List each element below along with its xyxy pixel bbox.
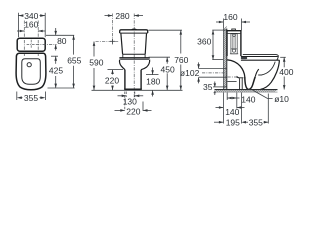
bowl rim top: [119, 57, 149, 59]
centerline extensions for 160 (dash-dot): [24, 21, 38, 57]
dimension 280: [105, 15, 144, 17]
tank center mark: [27, 40, 36, 49]
bowl plan inner rim: [22, 59, 41, 85]
dimension 425 extension: [51, 55, 58, 57]
flush inlet hole: [27, 63, 31, 67]
dimension 130 (bottom): [126, 92, 135, 98]
svg-text:80: 80: [57, 36, 67, 46]
seat level extension line: [149, 56, 171, 58]
supply point tick: [111, 39, 113, 44]
svg-text:180: 180: [146, 77, 160, 87]
bowl left side curve: [119, 60, 124, 70]
bowl rim line: [241, 59, 280, 61]
dimension 340 line: [18, 13, 45, 37]
seat front lip: [277, 56, 279, 60]
bottom extension lines: [223, 93, 268, 124]
dimension ø102: [198, 62, 200, 83]
svg-text:655: 655: [67, 55, 81, 65]
supply point horizontal centerline: [96, 40, 119, 42]
rear reference line: [46, 34, 74, 36]
wall fill: [223, 29, 226, 90]
bowl plan outer outline: [16, 53, 46, 90]
dimension 760: [180, 30, 182, 90]
dimension 360: [212, 29, 227, 31]
dimension 355 (right): [243, 121, 268, 123]
bowl right side curve: [141, 60, 150, 70]
tank lid: [120, 30, 148, 33]
dimension 590: [93, 42, 95, 91]
lid top extension line: [149, 29, 183, 31]
flush mechanism: [230, 34, 238, 54]
bowl rim lower line: [120, 58, 149, 60]
tank lid seam: [227, 32, 241, 34]
tank centerline to right (dash-dot): [36, 43, 57, 45]
dimension 655: [73, 35, 75, 88]
svg-text:760: 760: [174, 55, 188, 65]
dimension 160 arrows: [20, 30, 43, 33]
outlet centerline dash-dot: [202, 72, 227, 74]
floor hatching: [215, 90, 277, 92]
dimension 160 (top): [216, 19, 250, 31]
vertical outlet pipe: [238, 78, 244, 90]
pedestal bottom: [124, 88, 142, 90]
tank side outline: [227, 31, 241, 56]
pedestal: [125, 70, 141, 90]
wall lines: [222, 29, 224, 90]
supply centerline vertical (dash-dot): [111, 14, 113, 45]
svg-text:425: 425: [49, 65, 63, 75]
tank centerline (dash-dot): [133, 14, 135, 100]
dimension 355: [17, 92, 46, 101]
svg-text:140: 140: [241, 94, 255, 104]
tank bottom line: [123, 53, 146, 55]
dimension 220 (bottom): [124, 92, 126, 110]
svg-text:140: 140: [225, 107, 239, 117]
lid bottom line: [120, 32, 148, 34]
svg-text:280: 280: [115, 11, 129, 21]
rear foot line: [227, 80, 236, 82]
tank plan outline: [17, 38, 45, 51]
floor line: [215, 89, 278, 91]
svg-text:360: 360: [197, 36, 211, 46]
dimension 160 line: [17, 30, 46, 32]
outlet pipe lines: [199, 68, 227, 70]
dimension 80: [55, 28, 57, 51]
dimension 400: [280, 56, 286, 58]
trap right branch: [255, 69, 259, 77]
svg-text:220: 220: [105, 75, 119, 85]
svg-text:195: 195: [226, 117, 240, 127]
floor extension line: [92, 89, 183, 91]
dimension 35: [213, 86, 227, 88]
tank/bowl joint sides: [122, 54, 124, 57]
svg-text:35: 35: [203, 82, 213, 92]
svg-text:220: 220: [126, 106, 140, 116]
svg-text:355: 355: [24, 93, 38, 103]
flush button: [132, 28, 137, 31]
trap dip: [245, 77, 255, 90]
dimension 140 (upper): [227, 97, 239, 99]
bowl front face: [261, 60, 280, 89]
floor fill: [215, 90, 278, 93]
tank body sides: [121, 34, 123, 55]
outlet level extension line: [146, 74, 159, 76]
leader ø10: [253, 90, 273, 98]
dimension 220 (left): [112, 70, 114, 90]
seat lid side profile: [241, 55, 278, 57]
dimension 180: [152, 68, 154, 97]
svg-text:ø10: ø10: [274, 94, 289, 104]
svg-text:355: 355: [249, 117, 263, 127]
bowl interior centerline: [228, 76, 238, 78]
outlet junction blob: [237, 76, 240, 78]
bowl inner front curve: [258, 62, 275, 75]
flush button side: [232, 29, 236, 31]
svg-text:450: 450: [161, 65, 175, 75]
wall hatching: [223, 27, 226, 89]
bowl rear curve under tank: [227, 60, 245, 77]
dimension 140 (lower): [216, 107, 245, 109]
dimension 195: [214, 121, 223, 123]
svg-text:400: 400: [279, 67, 293, 77]
bottom reference line: [48, 87, 75, 89]
seat hinge: [241, 57, 247, 59]
dimension 340 arrows: [18, 14, 45, 17]
svg-text:160: 160: [223, 12, 237, 22]
dimension 425: [55, 56, 57, 88]
dimension 450: [166, 57, 168, 90]
svg-text:590: 590: [89, 58, 103, 68]
pedestal top extension line: [108, 69, 124, 71]
svg-text:160: 160: [24, 20, 38, 30]
svg-text:ø102: ø102: [180, 68, 200, 78]
